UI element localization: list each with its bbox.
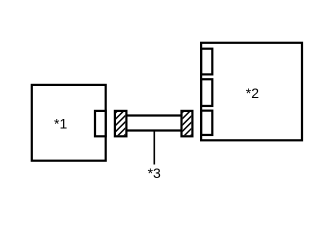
svg-text:*3: *3 bbox=[148, 165, 161, 181]
svg-text:*2: *2 bbox=[246, 85, 259, 101]
svg-text:*1: *1 bbox=[54, 115, 67, 131]
